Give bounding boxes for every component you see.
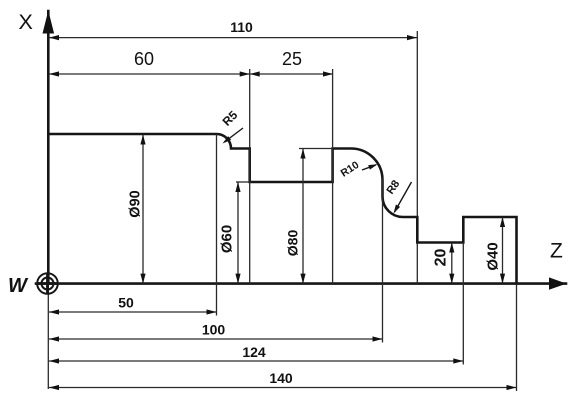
svg-text:Ø40: Ø40 xyxy=(485,242,502,270)
svg-text:Z: Z xyxy=(550,240,563,263)
svg-text:Ø80: Ø80 xyxy=(285,230,301,257)
svg-text:25: 25 xyxy=(282,49,302,69)
svg-text:110: 110 xyxy=(230,19,253,35)
svg-text:20: 20 xyxy=(433,249,450,267)
svg-text:60: 60 xyxy=(134,49,154,69)
svg-text:124: 124 xyxy=(242,344,266,360)
svg-text:100: 100 xyxy=(202,322,226,338)
svg-text:140: 140 xyxy=(269,370,293,386)
svg-text:Ø90: Ø90 xyxy=(128,190,144,217)
svg-text:X: X xyxy=(19,10,33,34)
svg-text:50: 50 xyxy=(118,295,134,311)
svg-text:W: W xyxy=(8,275,29,297)
svg-text:Ø60: Ø60 xyxy=(219,225,236,253)
